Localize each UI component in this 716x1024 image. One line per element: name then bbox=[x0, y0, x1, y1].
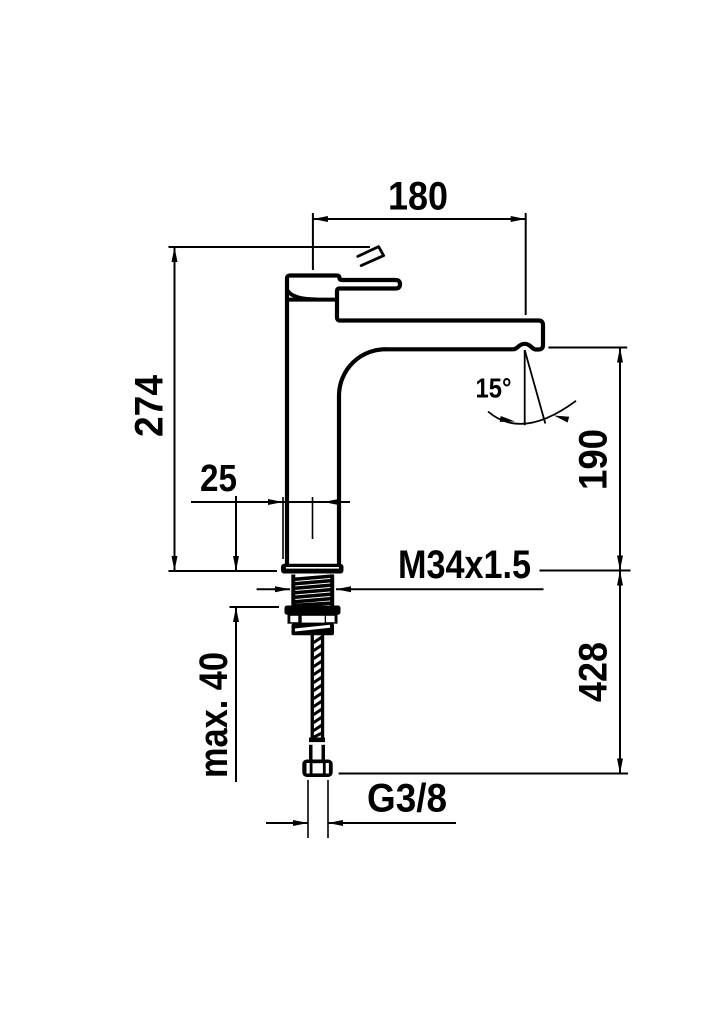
svg-text:180: 180 bbox=[388, 175, 448, 219]
svg-text:428: 428 bbox=[572, 642, 616, 702]
mounting flange bbox=[281, 564, 344, 574]
svg-text:274: 274 bbox=[128, 374, 172, 437]
faucet body outline (handle cap, lever, spout, column) bbox=[287, 276, 543, 564]
svg-text:max. 40: max. 40 bbox=[192, 652, 236, 778]
handle pivot wedge curve bbox=[288, 291, 316, 300]
dimension 274 (left) bbox=[169, 247, 371, 571]
dimension 428 (right lower) bbox=[339, 571, 628, 774]
svg-text:15°: 15° bbox=[476, 373, 512, 404]
dimension 190 (right upper) bbox=[548, 348, 627, 571]
dimension 180 (top) bbox=[313, 213, 526, 315]
handle base divider line bbox=[288, 298, 336, 302]
dimension G3/8 (bottom) bbox=[266, 780, 456, 838]
dimension 25 bbox=[191, 497, 350, 559]
svg-text:M34x1.5: M34x1.5 bbox=[398, 543, 531, 587]
svg-text:25: 25 bbox=[200, 458, 237, 500]
lever tip in raised position (tilted parallelogram) bbox=[358, 247, 384, 266]
dimension max. 40 bbox=[230, 496, 280, 782]
G3/8 connector nut bbox=[302, 760, 332, 778]
threaded shank M34x1.5 bbox=[291, 575, 334, 607]
fastening nut bbox=[285, 606, 341, 636]
hose ferrule bbox=[309, 738, 325, 760]
svg-text:190: 190 bbox=[572, 429, 616, 490]
angle 15 degrees annotation bbox=[488, 350, 576, 425]
thread size leader M34x1.5 bbox=[257, 571, 631, 590]
flexible braided hose bbox=[311, 635, 325, 738]
svg-text:G3/8: G3/8 bbox=[367, 777, 447, 821]
